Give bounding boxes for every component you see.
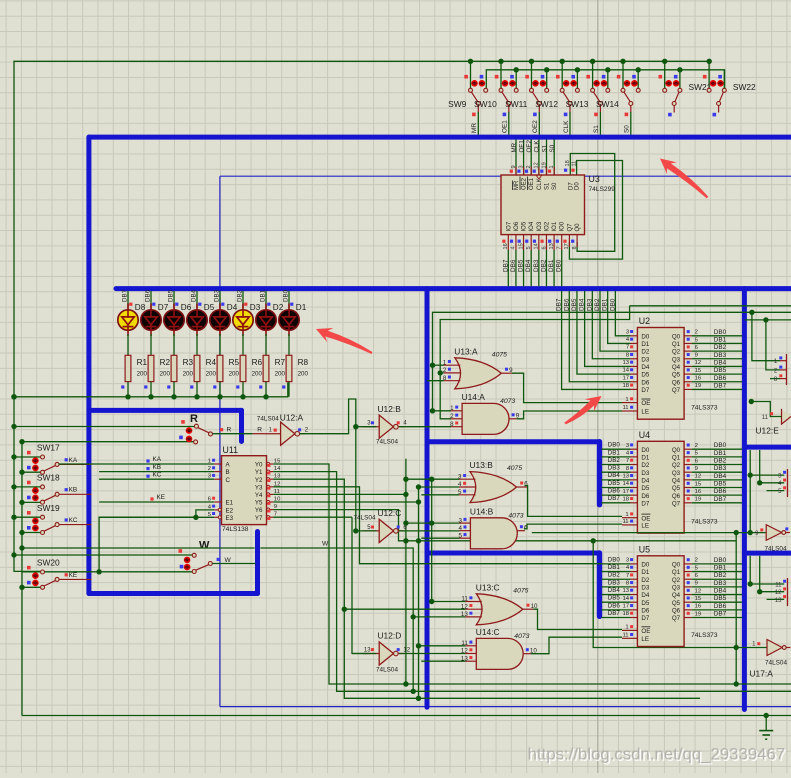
svg-text:D4: D4 [641,364,649,371]
bus stub around R area horizontal [89,408,242,413]
svg-text:DB3: DB3 [214,289,221,302]
svg-text:4: 4 [458,525,462,532]
svg-text:U14:B: U14:B [470,506,494,516]
wire resistor to rail [127,382,129,397]
svg-text:DB6: DB6 [563,298,570,311]
svg-text:S1: S1 [593,125,600,133]
wire U12:D output [399,653,465,655]
OR gate U13:B 4075 [458,460,528,503]
wire U14:C out to U5 LE [531,637,622,654]
svg-text:SW22: SW22 [733,82,756,92]
svg-text:13: 13 [623,360,630,366]
svg-text:DB3: DB3 [533,259,540,272]
annotation arrow top right [660,159,708,199]
pin stubs left U4 [631,448,638,450]
wire U13:C out to U5 OE [533,609,622,629]
wire feed U14:C inputs [419,645,466,647]
svg-text:11: 11 [571,161,577,167]
svg-text:D1: D1 [641,341,649,348]
svg-text:DB5: DB5 [571,298,578,311]
svg-text:DB1: DB1 [260,289,267,302]
svg-text:DB0: DB0 [608,556,621,563]
wire bottom long to ground rail [22,715,791,717]
wire bus to LED D6 [173,291,175,309]
svg-text:DB2: DB2 [594,298,601,311]
wire KA stub [59,463,91,465]
svg-text:KE: KE [69,572,78,579]
svg-text:R: R [190,413,198,425]
svg-text:OE2: OE2 [532,120,539,133]
svg-text:IO5: IO5 [522,221,528,231]
svg-text:4075: 4075 [492,351,507,358]
svg-text:9: 9 [695,581,698,587]
svg-text:12: 12 [775,590,782,596]
AND gate U14:A 4073 [450,392,520,435]
annotation arrow at LEDs [316,328,372,354]
wire bus to LED D7 [150,291,152,309]
wire Y5 route [273,501,418,503]
wire Y3 route long to U5 [273,487,601,564]
thin blue net line horizontal bottom [220,706,791,708]
svg-text:12: 12 [695,474,702,480]
switch SW10 [474,75,518,113]
svg-text:KA: KA [153,456,162,463]
wire OE2 net to bus [538,112,540,135]
svg-text:DB3: DB3 [714,352,727,359]
switch R [179,413,212,444]
svg-text:DB0: DB0 [714,329,727,336]
bus vertical right of U11 region [255,532,260,594]
svg-text:OE: OE [641,400,650,407]
switch SW20 [27,558,60,590]
wire to U12:C input [356,530,377,532]
svg-text:200: 200 [229,370,240,377]
resistor R4 [194,355,200,381]
OR gate U13:C 4075 [461,582,538,625]
svg-text:14: 14 [623,481,630,487]
svg-text:R2: R2 [160,358,171,367]
inverter U12:D [363,631,411,674]
bus vertical bar left of U5 [597,553,602,616]
svg-text:U14:C: U14:C [476,627,500,637]
svg-text:R: R [257,426,262,433]
wire loop D0 to Q0 inner [569,161,622,260]
svg-text:2: 2 [695,443,698,449]
svg-text:MR: MR [514,180,520,190]
svg-text:MR: MR [511,142,518,152]
wire Y6 route long [273,510,736,541]
wire mid vertical x418 [418,487,420,698]
svg-text:SW18: SW18 [37,473,60,483]
svg-text:74LS299: 74LS299 [589,186,616,193]
wire V_a to SW19 top [14,516,40,518]
svg-text:Q5: Q5 [672,485,681,492]
LED D1 [279,304,299,337]
AND gate U14:C 4073 [461,627,537,670]
svg-text:IO2: IO2 [544,221,550,231]
svg-text:Q7: Q7 [672,615,681,622]
svg-text:200: 200 [183,370,194,377]
svg-text:200: 200 [160,370,171,377]
AND gate U14:B 4073 [458,506,528,549]
svg-text:D6: D6 [641,493,649,500]
svg-text:11: 11 [775,582,782,588]
svg-text:Q6: Q6 [672,493,681,500]
svg-text:1: 1 [625,625,628,631]
svg-text:DB2: DB2 [714,572,727,579]
svg-text:11: 11 [622,405,628,411]
wire to right gate input1 [752,312,780,360]
svg-text:DB6: DB6 [714,603,727,610]
wire KE stub [59,578,91,580]
pin stubs top of U3 [515,167,517,175]
svg-text:15: 15 [695,368,702,374]
svg-text:200: 200 [137,370,148,377]
LED D6 [164,304,184,337]
inverter U12:C [354,508,408,543]
wire U14:B out to U4 LE [524,524,622,529]
svg-text:4073: 4073 [500,398,515,405]
svg-text:KE: KE [157,494,166,501]
svg-text:CLK: CLK [534,140,541,153]
thin blue net line horizontal top [220,175,791,177]
svg-text:74LS04: 74LS04 [765,546,787,553]
svg-text:R7: R7 [275,358,286,367]
svg-text:OE2: OE2 [526,140,533,153]
svg-text:7: 7 [626,573,629,579]
svg-text:Y3: Y3 [255,484,263,491]
pin stubs right U5 wires to bus [684,563,692,565]
svg-text:200: 200 [206,370,217,377]
svg-text:12: 12 [403,648,410,654]
wire feed U13:C inputs [432,601,466,603]
svg-text:7: 7 [626,345,629,351]
pin stubs right U2 wires to bus [684,335,692,337]
E2 E3 bubbles [218,508,221,511]
svg-text:U2: U2 [639,316,650,326]
svg-text:D5: D5 [641,600,649,607]
junction dots on rail2 [514,67,519,72]
svg-text:74LS373: 74LS373 [691,632,718,639]
svg-text:KA: KA [69,457,78,464]
svg-text:Y6: Y6 [255,507,263,514]
svg-text:U12:E: U12:E [756,426,780,436]
svg-text:D1: D1 [641,454,649,461]
svg-text:D4: D4 [227,303,238,312]
svg-text:DB5: DB5 [608,480,621,487]
svg-text:D6: D6 [641,379,649,386]
wire U12:B output to U14:A [399,426,451,428]
wire E2 E3 tie [196,510,214,517]
svg-text:Q1: Q1 [672,454,681,461]
switch SW14 [596,75,640,113]
svg-text:11: 11 [622,519,628,525]
wire feed U13:A U14:A inputs second [630,305,791,307]
wire LED to resistor R3 [173,334,175,355]
svg-text:Y7: Y7 [255,515,263,522]
svg-text:D2: D2 [641,349,649,356]
wire resistor to rail [196,382,198,397]
svg-text:13: 13 [623,473,630,479]
svg-text:12: 12 [695,588,702,594]
svg-text:Q1: Q1 [672,569,681,576]
wire MR net to bus [477,112,479,135]
svg-text:U12:A: U12:A [280,412,304,422]
svg-text:12: 12 [461,648,468,655]
wire LED to resistor R7 [265,334,267,355]
svg-text:Q7: Q7 [672,387,681,394]
svg-text:Q0: Q0 [575,223,581,232]
svg-text:DB7: DB7 [502,259,509,272]
wire branch to U17:A [593,541,767,648]
svg-text:D0: D0 [641,447,649,454]
svg-text:Y2: Y2 [255,477,263,484]
wires U3 IO pins down to bus [507,250,509,286]
svg-text:19: 19 [695,383,702,389]
svg-text:D3: D3 [641,470,649,477]
svg-text:Q7: Q7 [567,223,573,232]
svg-text:OE: OE [641,628,650,635]
OE LE stubs U2 [622,402,637,404]
wire to right gate input2 [766,320,780,370]
LED D2 [256,304,276,337]
svg-text:16: 16 [695,376,702,382]
OR gate U13:A 4075 [443,346,513,389]
svg-text:DB4: DB4 [714,359,727,366]
svg-text:SW19: SW19 [37,503,60,513]
IC U3 74LS299 body [501,175,585,235]
svg-text:S1: S1 [541,144,548,152]
inverter U12:A [257,412,309,445]
wire to U12:D input [352,653,376,655]
wire to inverter9 input [748,530,753,535]
svg-text:Q2: Q2 [672,462,681,469]
svg-text:D0: D0 [575,182,581,190]
svg-text:14: 14 [623,368,630,374]
wire E pins line to SW20 top [99,517,196,572]
svg-text:DB7: DB7 [122,289,129,302]
svg-text:4: 4 [511,246,517,249]
svg-text:D4: D4 [641,592,649,599]
svg-text:16: 16 [695,604,702,610]
svg-text:D3: D3 [641,356,649,363]
wire second top rail [486,70,724,91]
svg-text:U3: U3 [589,174,600,184]
switch SW22 [703,75,756,117]
wire V_a to R switch top [14,426,195,428]
svg-text:U13:C: U13:C [476,582,500,592]
wire S1 net to bus [599,112,601,135]
svg-text:15: 15 [695,596,702,602]
svg-text:C: C [226,477,231,484]
svg-text:LE: LE [641,409,649,416]
svg-text:S0: S0 [624,125,631,133]
wire resistor to rail [242,382,244,397]
svg-text:16: 16 [695,489,702,495]
svg-text:19: 19 [695,497,702,503]
svg-text:U5: U5 [639,544,650,554]
svg-text:S1: S1 [545,182,551,190]
svg-text:Q3: Q3 [672,470,681,477]
svg-text:Q7: Q7 [672,500,681,507]
svg-text:13: 13 [549,243,555,249]
svg-text:D2: D2 [641,462,649,469]
wire KC net to U11 [99,478,214,480]
wire loop D7 to Q7 outer [570,154,614,252]
ground symbol [759,716,773,740]
bus branch to U5 [427,551,600,556]
wire KC stub [59,524,91,526]
svg-text:SW10: SW10 [474,99,497,109]
wire V_b to SW17 bottom [22,471,40,473]
svg-text:DB6: DB6 [510,259,517,272]
svg-text:DB7: DB7 [608,610,621,617]
svg-text:MR: MR [471,123,478,133]
resistor R7 [263,355,269,381]
wires to right mid gate 3 4 5 [750,474,784,476]
svg-text:D7: D7 [158,303,169,312]
OE LE stubs U4 [622,517,637,519]
svg-text:IO6: IO6 [514,221,520,231]
wire KE net to U11 [99,501,214,503]
svg-text:200: 200 [275,370,286,377]
svg-text:DB6: DB6 [608,602,621,609]
svg-text:DB0: DB0 [556,259,563,272]
wire feed U13:B inputs [406,478,459,480]
svg-text:74LS04: 74LS04 [354,514,376,521]
svg-text:Q3: Q3 [672,356,681,363]
wire Y4 route [273,493,406,495]
switch SW9 [448,75,488,113]
svg-text:13: 13 [775,598,782,604]
svg-text:DB6: DB6 [714,375,727,382]
LED D7 [141,304,161,337]
svg-text:17: 17 [623,375,630,381]
svg-text:15: 15 [695,481,702,487]
bus right vertical [742,289,747,710]
svg-text:SW11: SW11 [505,99,528,109]
wire V_b to R switch bottom [22,441,194,443]
svg-text:74LS04: 74LS04 [376,667,398,674]
wire U13:A out to U2 OE [512,373,622,402]
wire vertical x736 down [735,533,737,684]
wire S0 net to bus [630,112,632,135]
svg-text:DB7: DB7 [714,611,727,618]
pin stubs right U4 wires to bus [684,448,692,450]
svg-text:D5: D5 [204,303,215,312]
svg-text:5: 5 [526,246,532,249]
wire OE1 net to bus [508,112,510,135]
svg-text:Q1: Q1 [672,341,681,348]
svg-text:SW20: SW20 [37,558,60,568]
svg-text:D7: D7 [641,500,649,507]
resistor R3 [171,355,177,381]
svg-text:DB2: DB2 [608,572,621,579]
pin stubs bottom of U3 and numbers [507,235,509,250]
svg-text:U4: U4 [639,430,650,440]
wires bus bar to U4 data pins [602,448,631,450]
junction dots V_a [11,394,16,399]
svg-text:Q6: Q6 [672,379,681,386]
wire V_b to SW20 bottom [22,586,40,588]
IC U4 74LS373 body [637,441,684,533]
svg-text:DB5: DB5 [714,481,727,488]
svg-text:9: 9 [695,466,698,472]
wire resistor common rail [14,382,288,397]
svg-text:D4: D4 [641,477,649,484]
switch SW11 [505,75,549,113]
svg-text:2: 2 [208,466,211,472]
IC U11 74LS138 body [222,456,267,525]
svg-text:IO7: IO7 [506,221,512,231]
wire feed U13:A U14:A inputs first [433,312,791,411]
switch SW12 [535,75,579,113]
svg-text:DB4: DB4 [579,298,586,311]
svg-text:DB5: DB5 [168,289,175,302]
wire U13:B out to U4 OE [525,486,623,517]
svg-text:DB6: DB6 [145,289,152,302]
svg-text:E2: E2 [226,508,234,515]
svg-text:IO0: IO0 [560,221,566,231]
svg-text:U12:D: U12:D [378,631,402,641]
svg-text:OE1: OE1 [502,120,509,133]
svg-text:SW9: SW9 [448,99,466,109]
wire vert feeds right low gate [749,556,751,584]
svg-text:D7: D7 [641,615,649,622]
svg-text:D0: D0 [641,562,649,569]
svg-text:U11: U11 [223,445,239,455]
wire U13:A input8 [427,380,444,382]
wire V_a to W top contact [14,554,192,556]
wire Y1 route [273,472,791,692]
pin stubs left U2 [631,335,638,337]
svg-text:D2: D2 [273,303,284,312]
switch SW18 [27,473,60,505]
svg-text:S0: S0 [552,182,558,190]
svg-text:7: 7 [626,458,629,464]
svg-text:Q2: Q2 [672,577,681,584]
wire resistor to rail [288,382,290,397]
svg-text:DB4: DB4 [714,588,727,595]
wire drops rail1 to switch left contacts [470,61,472,88]
svg-text:KB: KB [69,487,78,494]
svg-text:E3: E3 [226,515,234,522]
wire mid vertical x405 [405,459,407,684]
svg-text:DB6: DB6 [608,488,621,495]
IC U2 74LS373 body [637,328,684,420]
svg-text:DB2: DB2 [714,344,727,351]
IC U5 74LS373 body [637,556,684,647]
wire resistor to rail [219,382,221,397]
wire LED to resistor R8 [288,334,290,355]
wire LED to resistor R5 [219,334,221,355]
svg-text:DB7: DB7 [714,496,727,503]
svg-text:18: 18 [623,496,630,502]
svg-text:DB2: DB2 [608,457,621,464]
svg-text:74LS373: 74LS373 [691,405,718,412]
bus bottom horizontal of left loop [89,591,258,596]
wire KB net to U11 [99,471,214,473]
svg-text:DB6: DB6 [714,488,727,495]
svg-text:D7: D7 [568,182,574,190]
svg-text:DB1: DB1 [602,298,609,311]
svg-text:D1: D1 [641,569,649,576]
wire right short at 319.9 [745,319,791,321]
svg-text:Y4: Y4 [255,492,263,499]
svg-text:DB3: DB3 [714,580,727,587]
wire top rail from node at left edge [14,61,709,571]
svg-text:74LS04: 74LS04 [376,439,398,446]
